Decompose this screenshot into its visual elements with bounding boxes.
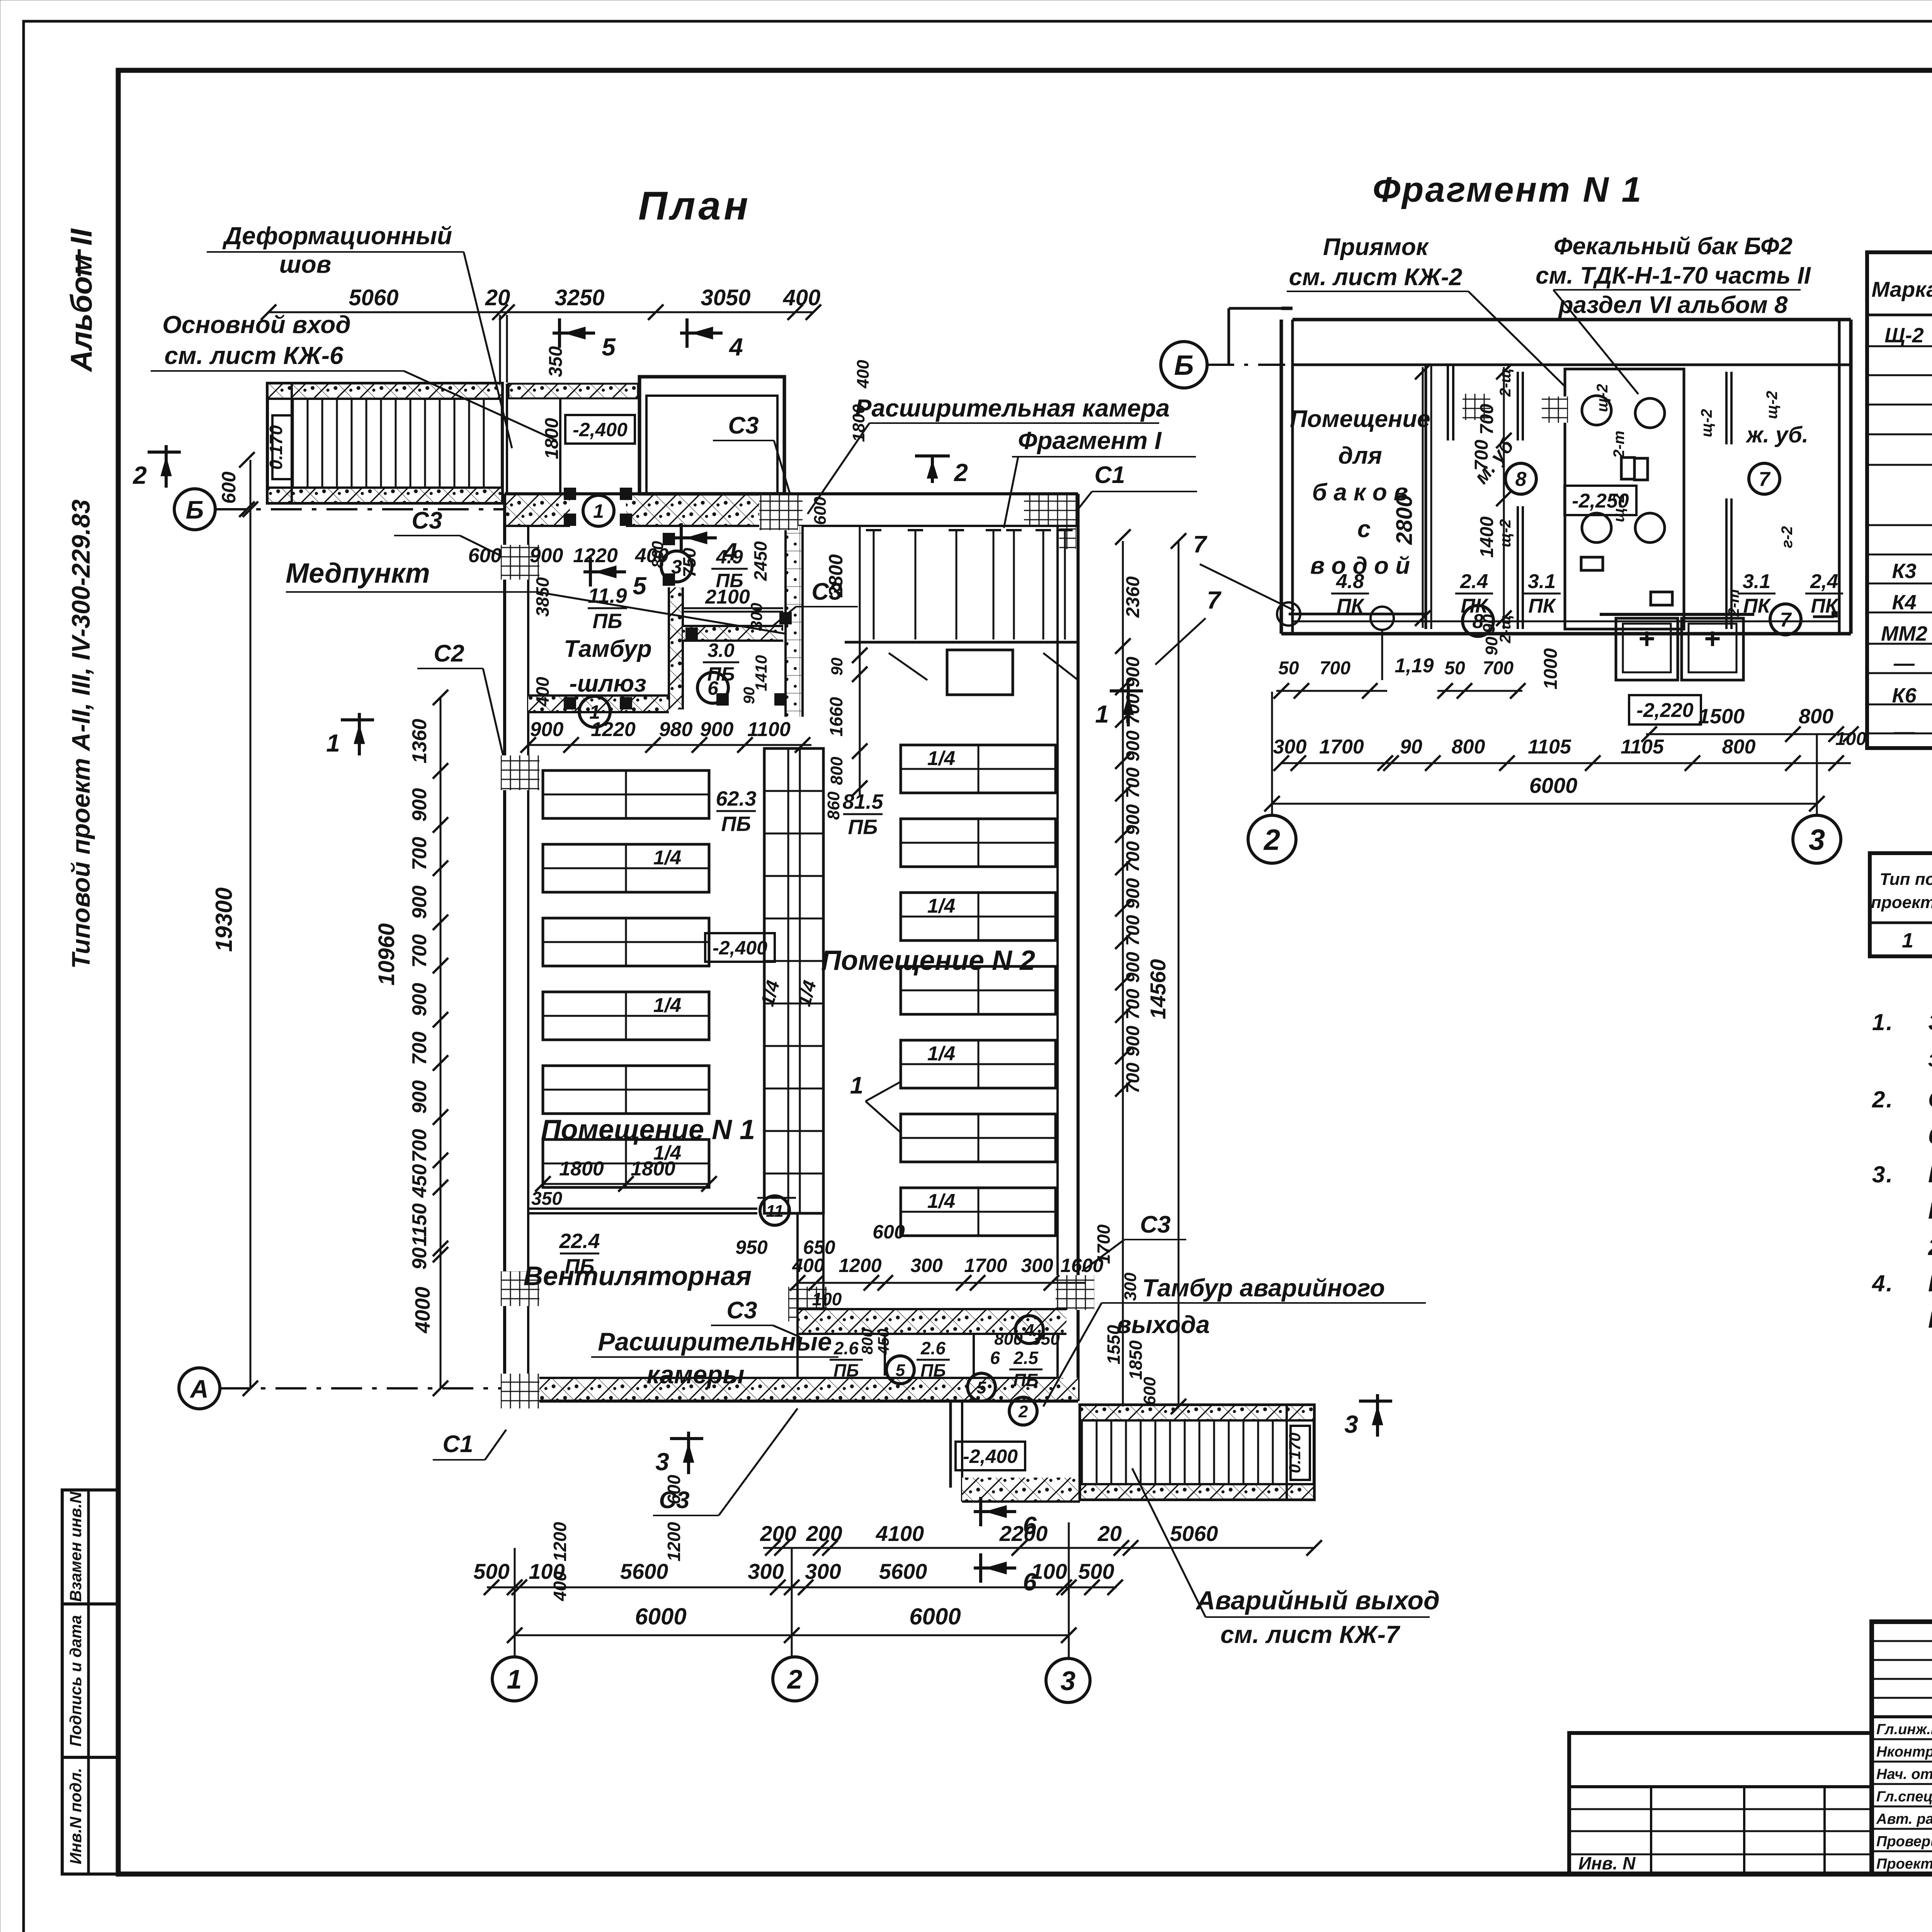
svg-text:раздел VI альбом 8: раздел VI альбом 8 bbox=[1558, 292, 1788, 318]
bunk row L1 bbox=[543, 770, 709, 818]
svg-text:6: 6 bbox=[990, 1348, 1000, 1368]
svg-text:2800: 2800 bbox=[1392, 495, 1417, 545]
fragment partitions bbox=[1425, 364, 1427, 629]
svg-text:1100: 1100 bbox=[747, 718, 791, 741]
svg-text:Щ-2: Щ-2 bbox=[1884, 324, 1923, 347]
svg-text:Б: Б bbox=[1174, 350, 1194, 381]
svg-text:ПБ: ПБ bbox=[848, 815, 878, 838]
svg-text:земли.: земли. bbox=[1928, 1046, 1932, 1071]
svg-text:Расширительная камера: Расширительная камера bbox=[855, 394, 1170, 422]
svg-text:Гл.инж.пр.: Гл.инж.пр. bbox=[1876, 1721, 1932, 1738]
svg-text:900: 900 bbox=[700, 718, 734, 741]
svg-text:0.170: 0.170 bbox=[266, 425, 286, 470]
fragment chain 1500 800 100 bbox=[1646, 733, 1851, 735]
svg-text:50: 50 bbox=[1444, 658, 1465, 679]
plan: fine left dim chain bbox=[440, 697, 442, 1388]
svg-text:450: 450 bbox=[408, 1164, 431, 1198]
svg-text:700: 700 bbox=[1320, 658, 1350, 679]
svg-text:6: 6 bbox=[707, 677, 719, 699]
svg-text:6000: 6000 bbox=[635, 1604, 686, 1629]
svg-text:3.1: 3.1 bbox=[1528, 570, 1556, 593]
svg-text:5060: 5060 bbox=[1170, 1521, 1218, 1546]
svg-text:3.: 3. bbox=[1872, 1162, 1894, 1187]
svg-text:-2,220: -2,220 bbox=[1636, 699, 1694, 722]
svg-text:5600: 5600 bbox=[620, 1559, 668, 1583]
svg-text:ПБ: ПБ bbox=[833, 1361, 859, 1381]
svg-text:—: — bbox=[1893, 720, 1915, 743]
svg-text:см. лист КЖ-7: см. лист КЖ-7 bbox=[1220, 1621, 1401, 1648]
right wall outer bbox=[1077, 494, 1080, 1401]
svg-text:4100: 4100 bbox=[876, 1521, 924, 1546]
svg-text:90: 90 bbox=[1400, 736, 1422, 758]
svg-text:900: 900 bbox=[530, 544, 563, 567]
plan: chain B bbox=[763, 1547, 1314, 1549]
svg-text:6000: 6000 bbox=[909, 1604, 961, 1629]
svg-text:Проектир: Проектир bbox=[1876, 1856, 1932, 1872]
svg-text:ж. уб.: ж. уб. bbox=[1745, 422, 1808, 447]
bunk row R1 bbox=[901, 745, 1056, 793]
svg-text:ПБ: ПБ bbox=[721, 812, 751, 835]
svg-text:А: А bbox=[189, 1374, 209, 1403]
svg-text:800: 800 bbox=[859, 1329, 876, 1355]
plan: black door jambs bbox=[564, 514, 576, 526]
svg-text:600: 600 bbox=[1140, 1377, 1159, 1405]
svg-text:ПК: ПК bbox=[1528, 595, 1556, 617]
svg-text:ГОСТу 6133-75. Узлы креплен: ГОСТу 6133-75. Узлы крепления перегородо… bbox=[1928, 1198, 1932, 1224]
plan: dims under tambur bbox=[528, 744, 811, 746]
svg-text:20: 20 bbox=[1097, 1521, 1122, 1546]
plan: expansion chambers bottom bbox=[798, 1309, 1066, 1334]
svg-text:щ-2: щ-2 bbox=[1497, 519, 1514, 548]
svg-text:22.4: 22.4 bbox=[559, 1230, 600, 1253]
svg-text:2-т: 2-т bbox=[1611, 430, 1628, 458]
svg-text:62.3: 62.3 bbox=[716, 787, 756, 810]
svg-text:-2,400: -2,400 bbox=[963, 1446, 1018, 1467]
svg-text:-2,400: -2,400 bbox=[573, 419, 628, 440]
svg-text:350: 350 bbox=[546, 346, 566, 377]
toilet stall box bbox=[1565, 369, 1684, 629]
svg-text:3: 3 bbox=[1061, 1666, 1076, 1696]
svg-text:ПК: ПК bbox=[1743, 595, 1771, 617]
svg-text:К4: К4 bbox=[1892, 591, 1916, 614]
plan: bottom right ramp bbox=[1080, 1405, 1314, 1500]
fragment: axis Б circle bbox=[1161, 342, 1207, 388]
svg-text:Гл.спец.: Гл.спец. bbox=[1876, 1789, 1932, 1805]
svg-text:2.6: 2.6 bbox=[833, 1338, 859, 1358]
svg-text:900: 900 bbox=[408, 788, 431, 822]
svg-text:700: 700 bbox=[1123, 989, 1143, 1020]
svg-text:400: 400 bbox=[783, 285, 821, 310]
svg-text:2360: 2360 bbox=[1123, 576, 1143, 618]
plan: central bunk strip bbox=[764, 748, 823, 1213]
svg-text:700: 700 bbox=[1483, 658, 1514, 679]
svg-text:3.0: 3.0 bbox=[707, 639, 735, 661]
plan: top dim chain bbox=[269, 311, 813, 313]
svg-text:2: 2 bbox=[787, 1664, 803, 1694]
svg-text:700: 700 bbox=[408, 934, 431, 968]
svg-text:С3: С3 bbox=[726, 1297, 757, 1324]
svg-text:7: 7 bbox=[1759, 468, 1771, 491]
svg-text:щ-2: щ-2 bbox=[1611, 494, 1628, 522]
svg-text:450: 450 bbox=[875, 1329, 892, 1355]
svg-text:20: 20 bbox=[485, 285, 510, 310]
svg-text:-2,400: -2,400 bbox=[713, 937, 767, 959]
svg-text:600: 600 bbox=[872, 1221, 905, 1243]
fragment right wall inner bbox=[1838, 320, 1841, 634]
svg-text:400: 400 bbox=[854, 360, 872, 389]
svg-text:14560: 14560 bbox=[1146, 959, 1170, 1019]
svg-text:300: 300 bbox=[1273, 736, 1307, 758]
svg-text:860: 860 bbox=[824, 791, 843, 820]
elevation -2.220 bbox=[1629, 695, 1701, 724]
svg-text:ПБ: ПБ bbox=[1013, 1370, 1039, 1390]
dim line 700 chain bbox=[1503, 367, 1505, 629]
svg-text:Нач. отд.: Нач. отд. bbox=[1876, 1766, 1932, 1782]
svg-text:2: 2 bbox=[1018, 1402, 1028, 1421]
svg-text:Вентиляторная: Вентиляторная bbox=[524, 1261, 752, 1291]
fragment lower-left fittings bbox=[1289, 613, 1426, 616]
svg-text:Проверил: Проверил bbox=[1876, 1833, 1932, 1850]
svg-text:1410: 1410 bbox=[752, 655, 770, 691]
svg-text:1220: 1220 bbox=[591, 718, 636, 741]
svg-text:5: 5 bbox=[977, 1378, 986, 1397]
fragment right wall outer bbox=[1849, 320, 1853, 634]
svg-text:Разрезы 3-3÷6-6 см. лист АС: Разрезы 3-3÷6-6 см. лист АС-6. bbox=[1928, 1307, 1932, 1333]
svg-text:1105: 1105 bbox=[1621, 736, 1664, 758]
svg-text:2: 2 bbox=[954, 459, 968, 486]
svg-text:500: 500 bbox=[473, 1559, 509, 1583]
svg-text:90: 90 bbox=[741, 687, 758, 704]
svg-text:750: 750 bbox=[679, 548, 699, 577]
svg-text:500: 500 bbox=[1078, 1559, 1114, 1583]
svg-text:2,230-1 выпуск 5.: 2,230-1 выпуск 5. bbox=[1928, 1234, 1932, 1260]
svg-text:700: 700 bbox=[1123, 767, 1143, 798]
fragment mesh symbols bbox=[1463, 394, 1490, 420]
svg-text:С1: С1 bbox=[1094, 462, 1125, 488]
svg-text:19300: 19300 bbox=[211, 888, 237, 952]
right wall inner bbox=[1056, 526, 1059, 1378]
svg-text:700: 700 bbox=[1123, 915, 1143, 946]
plan: axis A bbox=[179, 1368, 220, 1409]
svg-text:С3: С3 bbox=[412, 507, 442, 534]
svg-text:1150: 1150 bbox=[408, 1203, 431, 1247]
plan: top entrance ramp bbox=[267, 383, 502, 503]
svg-text:-шлюз: -шлюз bbox=[569, 670, 646, 697]
sink shelf bbox=[1600, 613, 1754, 616]
svg-text:1.: 1. bbox=[1872, 1009, 1894, 1035]
svg-text:6000: 6000 bbox=[1529, 773, 1578, 798]
svg-text:см. ТДК-Н-1-70 часть II: см. ТДК-Н-1-70 часть II bbox=[1536, 262, 1811, 289]
svg-text:1700: 1700 bbox=[1319, 736, 1364, 758]
svg-text:К3: К3 bbox=[1892, 560, 1916, 583]
svg-text:К6: К6 bbox=[1892, 684, 1917, 707]
bunk row L2 bbox=[543, 844, 709, 892]
plan: building walls bbox=[505, 494, 570, 526]
fragment left wall inner bbox=[1291, 320, 1294, 634]
svg-text:800: 800 bbox=[994, 1330, 1023, 1349]
svg-text:Нконтрс.с: Нконтрс.с bbox=[1876, 1744, 1932, 1760]
svg-text:11: 11 bbox=[766, 1202, 784, 1221]
left wall outer bbox=[503, 494, 506, 1401]
svg-text:Расширительные: Расширительные bbox=[598, 1327, 832, 1356]
svg-text:600: 600 bbox=[468, 544, 502, 567]
svg-text:Перегородки толщиной 90мм и: Перегородки толщиной 90мм из бетонных ка… bbox=[1928, 1162, 1932, 1187]
plan: right wall local dims bbox=[859, 526, 861, 796]
svg-text:100: 100 bbox=[1031, 1559, 1067, 1583]
svg-text:Фрагмент N 1: Фрагмент N 1 bbox=[1372, 170, 1643, 209]
svg-text:900: 900 bbox=[408, 983, 431, 1017]
svg-text:90: 90 bbox=[828, 658, 846, 676]
svg-text:1/4: 1/4 bbox=[927, 747, 955, 770]
margin bottom boxes bbox=[62, 1490, 119, 1604]
svg-text:4: 4 bbox=[728, 333, 743, 361]
svg-text:1200: 1200 bbox=[838, 1255, 881, 1276]
plan: connector patches bbox=[501, 545, 539, 580]
svg-text:600: 600 bbox=[811, 497, 830, 525]
bunk row R4 bbox=[901, 966, 1056, 1014]
fragment chain 300 1700 ... bbox=[1281, 762, 1851, 764]
svg-text:300: 300 bbox=[910, 1255, 943, 1276]
plan: expansion chamber elements top right bbox=[873, 530, 875, 639]
svg-text:Инв. N: Инв. N bbox=[1578, 1853, 1636, 1873]
svg-text:2100: 2100 bbox=[705, 586, 750, 608]
svg-text:проекту: проекту bbox=[1871, 893, 1932, 912]
svg-text:10960: 10960 bbox=[374, 923, 399, 985]
vedomost table bbox=[1870, 853, 1932, 956]
svg-text:2.5: 2.5 bbox=[1013, 1348, 1039, 1368]
svg-text:Б: Б bbox=[186, 495, 204, 524]
svg-text:1: 1 bbox=[507, 1664, 522, 1694]
svg-text:Тип по: Тип по bbox=[1880, 870, 1932, 889]
svg-text:1700: 1700 bbox=[1094, 1224, 1114, 1264]
svg-text:1/4: 1/4 bbox=[927, 1190, 955, 1213]
svg-text:1800: 1800 bbox=[559, 1158, 604, 1180]
svg-text:1660: 1660 bbox=[826, 697, 846, 736]
dim 19300 bbox=[250, 460, 252, 1388]
svg-text:3250: 3250 bbox=[554, 285, 604, 310]
svg-text:1/4: 1/4 bbox=[653, 994, 681, 1017]
svg-text:2.: 2. bbox=[1872, 1087, 1894, 1112]
svg-text:2,4: 2,4 bbox=[1810, 570, 1838, 593]
svg-text:0.170: 0.170 bbox=[1286, 1432, 1304, 1473]
svg-text:1/4: 1/4 bbox=[927, 895, 955, 917]
plan: top protruding room bbox=[639, 377, 784, 494]
svg-text:1: 1 bbox=[850, 1072, 863, 1099]
wall between rooms bbox=[796, 1213, 799, 1309]
plan: chain 6000 6000 bbox=[515, 1634, 1069, 1636]
svg-text:200: 200 bbox=[760, 1521, 796, 1546]
svg-text:С3: С3 bbox=[728, 412, 759, 439]
plan: axis circles bottom bbox=[492, 1657, 536, 1701]
svg-text:980: 980 bbox=[659, 718, 693, 741]
svg-text:100: 100 bbox=[1835, 729, 1866, 749]
svg-text:С1: С1 bbox=[442, 1431, 473, 1458]
svg-text:50: 50 bbox=[1278, 658, 1299, 679]
svg-text:Подпись и дата: Подпись и дата bbox=[66, 1615, 85, 1747]
svg-text:1105: 1105 bbox=[1528, 736, 1571, 758]
svg-text:5: 5 bbox=[602, 333, 616, 361]
svg-text:щ-2: щ-2 bbox=[1594, 384, 1611, 412]
svg-text:350: 350 bbox=[1031, 1330, 1060, 1349]
svg-text:1200: 1200 bbox=[550, 1522, 570, 1561]
plan: 6 section marks bbox=[974, 1510, 1016, 1513]
svg-text:1/4: 1/4 bbox=[927, 1043, 955, 1065]
svg-text:800: 800 bbox=[1722, 736, 1756, 758]
plan: ventilation room bbox=[528, 1207, 757, 1210]
svg-text:Фрагмент I: Фрагмент I bbox=[1018, 427, 1162, 454]
fragment left wall outer bbox=[1280, 320, 1283, 634]
svg-text:600: 600 bbox=[218, 471, 240, 504]
entry corridor wall bbox=[506, 384, 508, 494]
svg-text:5: 5 bbox=[633, 572, 647, 600]
svg-text:200: 200 bbox=[806, 1521, 842, 1546]
svg-text:Основной вход: Основной вход bbox=[162, 311, 351, 338]
title block main frame bbox=[1872, 1622, 1932, 1874]
left wall inner bbox=[527, 526, 529, 1378]
plan: axis Б bbox=[174, 489, 215, 530]
bunk row R6 bbox=[901, 1114, 1056, 1162]
deformation seam line bbox=[499, 315, 501, 383]
svg-text:300: 300 bbox=[805, 1559, 841, 1583]
svg-text:1360: 1360 bbox=[408, 719, 431, 764]
svg-text:Помещение N 2: Помещение N 2 bbox=[821, 945, 1035, 976]
plan: bottom dim chains bbox=[1376, 1394, 1379, 1437]
svg-text:см. лист КЖ-2: см. лист КЖ-2 bbox=[1289, 264, 1463, 291]
svg-text:Типовой проект А-II, III, IV-: Типовой проект А-II, III, IV-300-229.83 bbox=[66, 500, 95, 969]
svg-text:Деформационный: Деформационный bbox=[222, 222, 452, 250]
svg-text:7: 7 bbox=[1780, 609, 1792, 631]
svg-text:1,19: 1,19 bbox=[1395, 655, 1434, 677]
svg-text:блоков.: блоков. bbox=[1928, 1123, 1932, 1149]
svg-text:Медпункт: Медпункт bbox=[286, 558, 430, 589]
svg-text:2-т: 2-т bbox=[1725, 589, 1742, 617]
plan: tambur partitions bbox=[669, 587, 683, 709]
svg-text:1220: 1220 bbox=[573, 544, 618, 567]
plan: section marks 1 bbox=[358, 713, 361, 755]
fragment bench line bbox=[1293, 621, 1839, 622]
svg-text:выхода: выхода bbox=[1116, 1311, 1210, 1338]
svg-text:см. лист КЖ-6: см. лист КЖ-6 bbox=[164, 342, 344, 369]
svg-text:4.: 4. bbox=[1872, 1270, 1894, 1296]
svg-text:3050: 3050 bbox=[701, 285, 750, 310]
dim line 2800 bbox=[1422, 367, 1424, 628]
plan: chain C bbox=[487, 1587, 1117, 1588]
svg-text:1: 1 bbox=[1095, 700, 1109, 728]
svg-text:800: 800 bbox=[1452, 736, 1485, 758]
svg-text:Помещение: Помещение bbox=[1290, 406, 1430, 432]
svg-text:За отм. 0.000 условно прин: За отм. 0.000 условно принята планировоч… bbox=[1928, 1009, 1932, 1035]
elevation -2.250 bbox=[1565, 486, 1636, 515]
bunk row R5 bbox=[901, 1040, 1056, 1088]
svg-text:ПБ: ПБ bbox=[920, 1361, 946, 1381]
svg-text:Инв.N подл.: Инв.N подл. bbox=[66, 1768, 85, 1864]
svg-text:3: 3 bbox=[1344, 1410, 1358, 1438]
plan: lower mid dim chain bbox=[798, 1282, 1086, 1284]
svg-text:1: 1 bbox=[593, 500, 604, 522]
svg-text:700: 700 bbox=[1123, 1063, 1143, 1094]
svg-text:700: 700 bbox=[408, 1129, 431, 1163]
svg-text:2: 2 bbox=[1263, 823, 1280, 856]
svg-text:Альбом II: Альбом II bbox=[64, 228, 98, 372]
svg-text:900: 900 bbox=[408, 886, 431, 919]
svg-text:Тамбур: Тамбур bbox=[564, 636, 651, 662]
spec table frame bbox=[1867, 252, 1932, 748]
svg-text:С2: С2 bbox=[434, 640, 464, 667]
plan: bottom exit vestibule bbox=[949, 1401, 952, 1488]
svg-text:1/4: 1/4 bbox=[653, 847, 681, 869]
svg-text:300: 300 bbox=[1021, 1255, 1053, 1276]
svg-text:щ-2: щ-2 bbox=[1698, 409, 1715, 437]
svg-text:700: 700 bbox=[1471, 440, 1492, 471]
svg-text:ПБ: ПБ bbox=[592, 609, 622, 633]
svg-text:г-2: г-2 bbox=[1779, 526, 1796, 548]
svg-text:С3: С3 bbox=[1140, 1211, 1170, 1238]
svg-text:950: 950 bbox=[735, 1236, 768, 1258]
svg-text:1200: 1200 bbox=[664, 1522, 684, 1561]
fragment bottom line bbox=[1281, 632, 1851, 636]
svg-text:300: 300 bbox=[747, 603, 765, 630]
svg-text:90: 90 bbox=[408, 1247, 431, 1270]
svg-text:1500: 1500 bbox=[1698, 705, 1745, 728]
plan: right vertical dim chains bbox=[1122, 541, 1124, 1406]
svg-text:камеры: камеры bbox=[646, 1360, 744, 1389]
svg-text:100: 100 bbox=[529, 1559, 565, 1583]
svg-text:300: 300 bbox=[748, 1559, 784, 1583]
spec header bottom bbox=[1867, 314, 1932, 316]
svg-text:шов: шов bbox=[279, 250, 332, 278]
svg-text:800: 800 bbox=[1799, 705, 1833, 728]
svg-text:для: для bbox=[1338, 442, 1382, 469]
svg-text:2450: 2450 bbox=[750, 541, 770, 581]
svg-text:600: 600 bbox=[664, 1475, 684, 1504]
svg-text:90: 90 bbox=[1480, 614, 1498, 633]
svg-text:2200: 2200 bbox=[999, 1521, 1048, 1546]
bunk row R2 bbox=[901, 819, 1056, 867]
svg-text:800: 800 bbox=[827, 757, 846, 785]
svg-text:3: 3 bbox=[1809, 823, 1825, 856]
svg-text:Взамен инв.N: Взамен инв.N bbox=[66, 1491, 85, 1602]
bunk row R7 bbox=[901, 1188, 1056, 1236]
svg-text:700: 700 bbox=[1123, 841, 1143, 872]
bunk row L6 bbox=[543, 1139, 709, 1187]
svg-text:11.9: 11.9 bbox=[588, 584, 627, 607]
svg-text:1800: 1800 bbox=[631, 1158, 675, 1180]
svg-text:2.6: 2.6 bbox=[920, 1338, 946, 1358]
svg-text:5600: 5600 bbox=[879, 1559, 927, 1583]
svg-text:1700: 1700 bbox=[964, 1255, 1007, 1276]
fragment top wall inner bbox=[1293, 364, 1851, 366]
svg-text:7: 7 bbox=[1207, 586, 1222, 614]
svg-text:400: 400 bbox=[532, 677, 553, 707]
svg-text:—: — bbox=[1893, 652, 1915, 675]
svg-text:900: 900 bbox=[408, 1080, 431, 1114]
WC pans bbox=[1590, 455, 1634, 481]
svg-text:3.1: 3.1 bbox=[1743, 570, 1770, 593]
svg-text:Разрезы 1-1, 2-2 и типы по: Разрезы 1-1, 2-2 и типы полов см. лист А… bbox=[1928, 1270, 1932, 1296]
svg-text:4.8: 4.8 bbox=[1336, 570, 1364, 593]
title block left extension bbox=[1569, 1733, 1872, 1874]
svg-text:Приямок: Приямок bbox=[1323, 234, 1429, 260]
svg-text:800: 800 bbox=[648, 541, 667, 568]
svg-text:1000: 1000 bbox=[1541, 648, 1561, 689]
svg-text:700: 700 bbox=[408, 1032, 431, 1065]
svg-text:1850: 1850 bbox=[1126, 1340, 1146, 1380]
bunk row L5 bbox=[543, 1066, 709, 1114]
plan: section marks interior bbox=[583, 570, 626, 573]
svg-text:+: + bbox=[1638, 622, 1655, 655]
svg-text:Фекальный бак БФ2: Фекальный бак БФ2 bbox=[1554, 233, 1793, 260]
svg-text:+: + bbox=[1704, 622, 1721, 655]
